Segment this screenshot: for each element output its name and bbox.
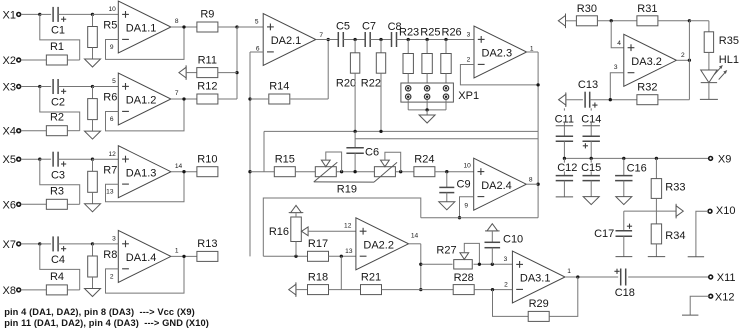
svg-text:R11: R11: [198, 54, 217, 66]
wire DA2.4 output: [526, 183, 538, 185]
node R20 top: [353, 38, 356, 41]
terminal X2: [17, 58, 21, 62]
svg-text:C3: C3: [51, 169, 65, 181]
wire R33 to R34: [655, 198, 657, 224]
capacitor C3: [52, 152, 54, 167]
op-amp DA1.2: [118, 73, 171, 125]
node C6 top: [353, 130, 356, 133]
svg-text:R20: R20: [336, 78, 356, 90]
svg-text:C1: C1: [51, 25, 65, 37]
capacitor C15: [590, 158, 592, 162]
svg-text:3: 3: [504, 256, 508, 263]
svg-text:C16: C16: [627, 163, 647, 175]
svg-text:13: 13: [345, 248, 353, 255]
wire X8 return path: [40, 244, 80, 290]
rail arrow above R16: [289, 212, 304, 214]
svg-text:R14: R14: [269, 81, 289, 93]
wire R3 to return path: [67, 203, 79, 205]
wire to C6: [354, 131, 356, 147]
op-amp DA2.2: [356, 218, 409, 270]
wire R6 to ground: [92, 120, 94, 132]
wire bias to DA3.2 +: [611, 21, 624, 48]
wire R7 to ground: [92, 192, 94, 204]
wire DA2.3 feedback: [460, 65, 538, 85]
capacitor C16: [623, 158, 625, 175]
wire DA2.4 - input: [460, 197, 474, 218]
node R27 tap: [419, 263, 422, 266]
wire node to op-amp +: [93, 243, 119, 245]
wire to resistor: [407, 40, 409, 54]
svg-text:C7: C7: [362, 20, 376, 32]
wire bus to R33: [655, 158, 657, 178]
svg-text:X9: X9: [718, 153, 731, 165]
svg-text:R6: R6: [103, 92, 117, 104]
wire R19.1 to R19.2: [336, 171, 374, 173]
svg-text:C14: C14: [581, 113, 601, 125]
resistor R11: [197, 68, 218, 78]
resistor R13: [197, 251, 218, 261]
wire R5 to ground: [92, 48, 94, 60]
svg-text:C2: C2: [51, 97, 65, 109]
wire C10 to pin3 line: [491, 248, 493, 265]
wire XP1 ground bus: [408, 109, 446, 111]
svg-text:9: 9: [110, 44, 114, 51]
wire R21 to R28: [382, 289, 454, 291]
svg-text:R9: R9: [200, 9, 214, 21]
node DA3.1 output junction: [576, 275, 579, 278]
svg-text:R19: R19: [337, 184, 357, 196]
node X3 junction: [38, 85, 41, 88]
connector XP1: [401, 83, 454, 102]
wire R22 to line B: [380, 73, 382, 131]
node pin13 junction: [340, 255, 343, 258]
wire C13 to R32: [590, 99, 637, 101]
svg-text:HL1: HL1: [719, 54, 739, 66]
chassis bar: [648, 256, 665, 258]
svg-text:X11: X11: [717, 272, 736, 284]
wire pin2 to R29: [493, 290, 529, 317]
wire R8 to ground: [92, 277, 94, 289]
svg-text:R13: R13: [197, 238, 217, 250]
wire R24 to DA2.4 +: [435, 171, 474, 173]
wire X6 return path: [40, 159, 80, 204]
node R22 bottom: [379, 130, 382, 133]
wire R26 to XP1: [445, 74, 447, 86]
svg-text:14: 14: [411, 233, 419, 240]
svg-text:X5: X5: [3, 154, 16, 166]
node R7 tap: [91, 158, 94, 161]
svg-text:C6: C6: [365, 147, 379, 159]
node X5 junction: [38, 158, 41, 161]
R19.2 wiper: [381, 160, 390, 167]
wire cap to node: [58, 243, 92, 245]
resistor R35: [704, 32, 713, 53]
svg-text:R26: R26: [442, 27, 462, 39]
svg-text:5: 5: [255, 18, 259, 25]
ground: [85, 131, 101, 139]
terminal X5: [17, 157, 21, 161]
svg-text:R32: R32: [637, 82, 657, 94]
op-amp DA2.1: [263, 14, 316, 66]
wire down to R5: [92, 14, 94, 26]
resistor R28: [453, 285, 474, 295]
resistor R18: [308, 285, 329, 295]
svg-text:R29: R29: [529, 298, 549, 310]
wire arrow to R30: [566, 20, 577, 22]
wire C8 to DA2.3 +: [397, 39, 475, 41]
svg-text:R10: R10: [197, 153, 217, 165]
rail arrow at R11: [185, 65, 187, 80]
wire C6 to midline: [354, 153, 356, 171]
capacitor C17: [616, 230, 633, 232]
node X1 junction: [38, 13, 41, 16]
wire DA1.1 feedback loop: [106, 27, 185, 59]
node R25 top: [425, 38, 428, 41]
op-amp DA3.2: [624, 34, 677, 86]
wire R16 top: [295, 213, 297, 217]
svg-text:7: 7: [175, 90, 179, 97]
svg-text:DA2.4: DA2.4: [481, 180, 512, 192]
svg-text:13: 13: [106, 189, 114, 196]
op-amp DA1.4: [118, 230, 171, 282]
chassis bar: [700, 98, 718, 100]
wire DA3.1 output: [565, 276, 618, 278]
wire node to cap: [40, 13, 51, 15]
svg-text:2: 2: [110, 273, 114, 280]
node C6 bottom: [353, 170, 356, 173]
rail arrow at R30: [565, 14, 567, 29]
wire X4 to R2: [21, 130, 47, 132]
svg-text:R35: R35: [719, 35, 739, 47]
node DA2.1 output: [327, 38, 330, 41]
svg-text:C5: C5: [336, 20, 350, 32]
chassis bar: [688, 256, 704, 258]
wire R20 to line B: [354, 73, 356, 131]
wire R4 to return path: [67, 289, 79, 291]
node C9 tap: [445, 170, 448, 173]
wire R9 to rail: [218, 26, 237, 28]
svg-text:6: 6: [256, 45, 260, 52]
resistor R23: [403, 54, 413, 74]
node DA1.4 output junction: [182, 255, 185, 258]
svg-text:R7: R7: [103, 164, 117, 176]
wire to resistor: [445, 40, 447, 54]
resistor R6: [88, 99, 98, 120]
svg-text:R33: R33: [665, 181, 685, 193]
resistor R5: [88, 27, 98, 48]
node C16: [622, 157, 625, 160]
wire down to R6: [92, 87, 94, 99]
ground: [85, 289, 101, 297]
wire X1 to node: [21, 13, 40, 15]
svg-text:X7: X7: [3, 239, 16, 251]
LED HL1: [701, 70, 717, 83]
node C10 bottom: [491, 263, 494, 266]
wire R16 bottom: [295, 242, 297, 257]
svg-text:R8: R8: [103, 249, 117, 261]
wire XP1 pin to gnd line: [445, 100, 447, 110]
svg-text:pin 4 (DA1, DA2), pin 8 (DA3): pin 4 (DA1, DA2), pin 8 (DA3) ---> Vcc (…: [4, 307, 195, 317]
svg-text:C17: C17: [594, 228, 614, 240]
wire X12 to ground: [690, 296, 709, 315]
wire X7 to node: [21, 243, 40, 245]
wire node to cap: [40, 158, 51, 160]
node X7 junction: [38, 242, 41, 245]
wire to R27: [421, 263, 453, 265]
node R26 top: [444, 38, 447, 41]
svg-text:R34: R34: [665, 230, 685, 242]
wire midline: [250, 171, 274, 173]
svg-text:R15: R15: [275, 153, 295, 165]
terminal X3: [17, 85, 21, 89]
wire R23 to XP1: [407, 74, 409, 86]
R19 gang link line: [314, 181, 374, 183]
wire DA1.3 output: [171, 171, 198, 173]
node R31/R35 junction: [688, 19, 691, 22]
wire R1 to return path: [67, 59, 79, 61]
svg-text:R22: R22: [361, 78, 381, 90]
resistor R4: [46, 285, 67, 295]
wire pin9 line: [421, 217, 538, 219]
variable resistor R27: [454, 260, 473, 269]
wire C6 node to output rail: [355, 138, 538, 140]
resistor R9: [197, 22, 218, 32]
node R19.2 wiper tap: [399, 170, 402, 173]
wire rail vertical: [236, 27, 238, 99]
svg-text:R28: R28: [454, 272, 474, 284]
wire R15 to R19.1: [295, 171, 315, 173]
wire output rail vertical: [537, 52, 539, 218]
svg-text:R5: R5: [103, 20, 117, 32]
wire to R35: [689, 20, 709, 22]
resistor R29: [528, 311, 549, 321]
capacitor C5: [337, 32, 339, 47]
node R33: [655, 157, 658, 160]
wire R18 to R21: [329, 289, 361, 291]
node R6 tap: [91, 85, 94, 88]
svg-text:R30: R30: [577, 3, 597, 15]
resistor R10: [197, 167, 218, 177]
svg-text:X1: X1: [3, 9, 16, 21]
resistor R21: [361, 285, 382, 295]
wire X2 to R1: [21, 59, 47, 61]
node R5 tap: [91, 13, 94, 16]
node XP1 ground junction: [425, 108, 428, 111]
node DA2.4 output junction: [536, 183, 539, 186]
svg-text:R16: R16: [269, 226, 289, 238]
svg-text:4: 4: [617, 40, 621, 47]
node DA3.2 output: [688, 59, 691, 62]
wire DA3.2 output: [676, 59, 689, 61]
wire arrow to R18: [296, 289, 308, 291]
wire node to op-amp +: [93, 13, 119, 15]
svg-text:12: 12: [344, 222, 352, 229]
variable resistor R19.2: [374, 167, 395, 177]
rail arrow right: [675, 204, 677, 219]
wire DA1.1 output: [171, 26, 198, 28]
svg-text:C13: C13: [578, 79, 598, 91]
potentiometer R16: [291, 217, 302, 242]
node R16 bottom: [294, 255, 297, 258]
node C13/pin3 junction: [609, 98, 612, 101]
wire to R20: [354, 40, 356, 53]
wire DA2.1 output: [316, 39, 339, 41]
wire down to R7: [92, 159, 94, 171]
svg-text:9: 9: [464, 202, 468, 209]
node R11 tap: [235, 71, 238, 74]
wire Vcc bus to X9: [564, 157, 708, 159]
svg-text:R2: R2: [50, 112, 64, 124]
svg-text:DA3.2: DA3.2: [631, 56, 662, 68]
svg-text:R18: R18: [308, 272, 328, 284]
wire R17 to DA2.2 -: [329, 255, 356, 257]
variable resistor R19.1: [315, 167, 336, 177]
svg-text:5: 5: [112, 78, 116, 85]
svg-text:DA1.3: DA1.3: [126, 167, 157, 179]
capacitor C18: [620, 269, 622, 286]
node R23 top: [407, 38, 410, 41]
svg-text:1: 1: [567, 268, 571, 275]
wire cap to node: [58, 158, 92, 160]
resistor R20: [350, 53, 359, 73]
svg-text:R23: R23: [399, 27, 419, 39]
wire R11 to rail: [218, 72, 237, 74]
resistor R24: [414, 167, 435, 177]
node R21/R28 junction: [419, 288, 422, 291]
op-amp DA3.1: [512, 251, 565, 303]
resistor R7: [88, 171, 98, 192]
svg-text:C9: C9: [457, 179, 471, 191]
resistor R34: [651, 224, 661, 244]
wire output vertical: [420, 244, 422, 290]
chassis bar: [682, 314, 698, 316]
node R19.1 wiper tap: [340, 170, 343, 173]
op-amp DA2.3: [474, 26, 527, 78]
wire DA2.2 output: [409, 243, 421, 245]
resistor R31: [637, 16, 658, 26]
svg-text:3: 3: [112, 236, 116, 243]
svg-text:R4: R4: [50, 271, 64, 283]
wire inverting bus vertical: [249, 52, 251, 256]
svg-text:X8: X8: [3, 285, 16, 297]
wire X3 to node: [21, 86, 40, 88]
svg-text:2: 2: [467, 56, 471, 63]
ground: [439, 202, 455, 210]
wire feedback up: [327, 40, 329, 100]
wire cap to node: [58, 86, 92, 88]
terminal X12: [709, 294, 713, 298]
R27 wiper: [460, 253, 469, 260]
wire output to R31/R32: [688, 21, 690, 100]
node rail top: [235, 25, 238, 28]
svg-text:X3: X3: [3, 82, 16, 94]
wire R19.2 to R24: [396, 171, 414, 173]
svg-text:pin 11 (DA1, DA2), pin 4 (DA3): pin 11 (DA1, DA2), pin 4 (DA3) ---> GND …: [4, 318, 209, 328]
node C14/C15: [590, 157, 593, 160]
wire bias divider line: [624, 210, 676, 212]
capacitor C10: [485, 241, 501, 243]
svg-text:R27: R27: [436, 245, 456, 257]
R19.2 diagonal arrow: [374, 162, 397, 182]
wire arrow to C13: [566, 99, 583, 101]
node R8 tap: [91, 242, 94, 245]
capacitor C6: [346, 147, 363, 149]
ground: [85, 59, 101, 67]
wire X5 to node: [21, 158, 40, 160]
op-amp DA2.4: [474, 158, 527, 210]
svg-text:X6: X6: [3, 199, 16, 211]
wire R32 to output: [658, 99, 690, 101]
svg-text:R17: R17: [308, 238, 328, 250]
resistor R26: [441, 54, 451, 74]
svg-text:X10: X10: [716, 205, 736, 217]
capacitor C2: [52, 79, 54, 94]
svg-text:2: 2: [681, 52, 685, 59]
wire DA3.2 - input: [610, 73, 624, 100]
svg-text:10: 10: [463, 163, 471, 170]
wire to C9: [446, 172, 448, 188]
wire R27 to DA3.1 +: [474, 263, 513, 265]
wire R31 to output rail: [658, 20, 690, 22]
resistor R2: [46, 126, 67, 136]
wire node to op-amp +: [93, 158, 119, 160]
svg-text:C11: C11: [555, 113, 574, 125]
resistor R17: [308, 251, 329, 261]
node R14 left: [248, 97, 251, 100]
svg-text:DA1.4: DA1.4: [126, 252, 157, 264]
svg-text:R21: R21: [361, 272, 381, 284]
terminal X4: [17, 129, 21, 133]
wire DA2.3 output: [527, 51, 539, 53]
capacitor C11: [563, 108, 565, 110]
wire HL1 cathode: [708, 83, 710, 100]
wire node to cap: [40, 243, 51, 245]
svg-text:1: 1: [175, 248, 179, 255]
wire line B horizontal: [264, 130, 538, 132]
wire XP1 pin to gnd line: [407, 100, 409, 110]
wire to ground: [426, 110, 428, 115]
wire cap to node: [58, 13, 92, 15]
svg-text:3: 3: [467, 31, 471, 38]
wire rail to DA2.1 +: [237, 26, 263, 28]
ground: [85, 204, 101, 212]
node C11/C12: [563, 157, 566, 160]
svg-text:12: 12: [108, 151, 116, 158]
resistor R25: [422, 54, 432, 74]
wire DA1.2 feedback loop: [106, 99, 185, 131]
capacitor C12: [563, 158, 565, 162]
resistor R33: [651, 179, 661, 199]
wire R35 to HL1: [708, 52, 710, 70]
resistor R3: [46, 199, 67, 209]
wire XP1 pin to gnd line: [426, 100, 428, 110]
svg-text:3: 3: [614, 64, 618, 71]
wire DA1.4 feedback loop: [106, 256, 185, 293]
wire R14 to output: [290, 98, 328, 100]
R16 wiper: [302, 227, 309, 236]
resistor R1: [46, 55, 67, 65]
terminal X10: [708, 209, 712, 213]
capacitor C8: [391, 32, 393, 47]
wire R12 to rail corner: [218, 98, 237, 100]
svg-text:C4: C4: [51, 254, 65, 266]
resistor R30: [576, 16, 597, 26]
svg-text:DA2.1: DA2.1: [271, 35, 302, 47]
resistor R15: [274, 167, 295, 177]
svg-text:10: 10: [108, 6, 116, 13]
capacitor C13: [584, 92, 586, 108]
svg-text:6: 6: [110, 116, 114, 123]
